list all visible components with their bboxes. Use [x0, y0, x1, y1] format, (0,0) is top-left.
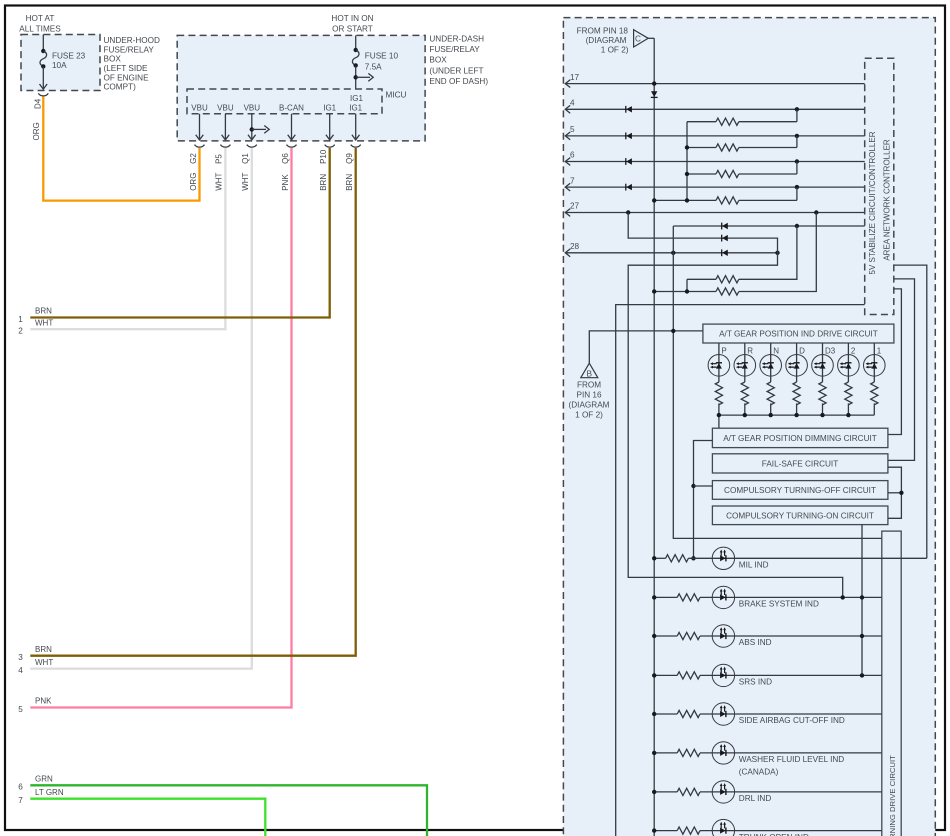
junction bus row MIL IND — [652, 556, 656, 560]
resistor gear D3 — [819, 382, 826, 405]
svg-text:HOT AT: HOT AT — [26, 14, 55, 23]
svg-text:C: C — [635, 34, 641, 44]
wire long feed from 5V box — [616, 305, 865, 836]
svg-text:END OF DASH): END OF DASH) — [429, 77, 488, 86]
wire MICU pin down arrow — [199, 114, 201, 139]
svg-text:FUSE/RELAY: FUSE/RELAY — [429, 45, 480, 54]
junction pin 27 left branch — [626, 210, 630, 214]
svg-text:4: 4 — [18, 666, 23, 675]
junction pin 28 / row B — [775, 251, 779, 255]
junction pin 5 riser — [795, 134, 799, 138]
resistor gear D — [793, 382, 800, 405]
buffer triangle C — [634, 30, 649, 47]
svg-text:FUSE/RELAY: FUSE/RELAY — [104, 45, 155, 54]
svg-text:N: N — [773, 346, 779, 355]
wire riser to pin row — [796, 109, 798, 121]
pin 6 row wire — [565, 161, 865, 163]
svg-text:PNK: PNK — [35, 697, 52, 706]
wire GRN pin6 — [30, 785, 427, 836]
svg-text:5V STABILIZE CIRCUIT/CONTROLLE: 5V STABILIZE CIRCUIT/CONTROLLER — [868, 131, 877, 274]
wire ORG from fuse 23 to G2 — [43, 97, 199, 201]
svg-text:WHT: WHT — [35, 318, 53, 327]
svg-text:SRS IND: SRS IND — [739, 678, 772, 687]
wire branch arrow right — [356, 76, 370, 78]
svg-text:A/T GEAR POSITION DIMMING CIRC: A/T GEAR POSITION DIMMING CIRCUIT — [723, 434, 877, 443]
diode pin 4 — [626, 106, 632, 113]
junction pin 6 riser — [795, 159, 799, 163]
svg-text:BRN: BRN — [319, 174, 328, 191]
indicator row SRS IND — [654, 674, 677, 676]
junction OFF box feed — [691, 484, 695, 488]
svg-text:UNDER-HOOD: UNDER-HOOD — [104, 36, 160, 45]
svg-text:ABS IND: ABS IND — [739, 638, 772, 647]
LED SIDE AIRBAG CUT-OFF IND — [712, 703, 734, 725]
indicator row TRUNK OPEN IND — [654, 830, 677, 832]
wire MICU pin down arrow — [251, 114, 253, 139]
junction pin 27 resistor riser — [814, 210, 818, 214]
svg-text:R: R — [747, 346, 753, 355]
gear indicator LED R — [744, 343, 746, 415]
wire Q1 branch arrow right — [252, 128, 266, 130]
resistor gear N — [767, 382, 774, 405]
wire fuse 23 feed — [42, 35, 44, 52]
svg-text:FROM: FROM — [577, 380, 601, 389]
junction SRS row ON chain — [860, 673, 864, 677]
svg-text:WHT: WHT — [215, 172, 224, 190]
svg-text:FUSE 10: FUSE 10 — [365, 52, 399, 61]
svg-text:A/T GEAR POSITION IND DRIVE CI: A/T GEAR POSITION IND DRIVE CIRCUIT — [719, 330, 878, 339]
svg-text:OR START: OR START — [332, 24, 373, 33]
wire 5V box stub 1 to MIL — [894, 265, 927, 558]
LED MIL IND — [712, 547, 734, 569]
pin 4 row wire — [565, 108, 865, 110]
junction BRAKE row B feed — [841, 595, 845, 599]
wire riser to pin row — [796, 187, 798, 200]
diode pin 5 — [626, 133, 632, 140]
gear indicator LED D3 — [822, 343, 824, 415]
LED DRL IND — [712, 781, 734, 803]
svg-text:3: 3 — [18, 653, 23, 662]
diode pin 7 — [626, 184, 632, 191]
svg-text:PNK: PNK — [281, 174, 290, 191]
svg-text:MIL IND: MIL IND — [739, 561, 769, 570]
warning drive circuit box — [882, 531, 901, 836]
svg-text:G2: G2 — [189, 153, 198, 164]
svg-text:28: 28 — [570, 242, 580, 251]
svg-text:10A: 10A — [52, 61, 67, 70]
svg-text:(CANADA): (CANADA) — [739, 767, 779, 776]
svg-text:6: 6 — [18, 783, 23, 792]
indicator row DRL IND — [654, 791, 677, 793]
wire B to drive circuit — [589, 331, 703, 363]
A/T gear position dimming circuit box — [712, 428, 888, 447]
resistor ladder row 1 — [687, 121, 716, 123]
svg-text:WASHER FLUID LEVEL IND: WASHER FLUID LEVEL IND — [739, 755, 844, 764]
junction gear bus D3 — [820, 413, 824, 417]
wire riser to pin row — [796, 162, 798, 175]
svg-text:D: D — [799, 346, 805, 355]
svg-text:1 OF 2): 1 OF 2) — [601, 45, 629, 54]
svg-text:AREA NETWORK CONTROLLER: AREA NETWORK CONTROLLER — [883, 139, 892, 261]
svg-text:COMPT): COMPT) — [104, 83, 137, 92]
diode row A wire — [673, 225, 864, 227]
junction bus row BRAKE SYSTEM IND — [652, 595, 656, 599]
wire LT GRN pin7 — [30, 799, 265, 836]
svg-text:27: 27 — [570, 202, 580, 211]
A/T gear position ind drive circuit box — [703, 324, 894, 343]
wire fuse 10 feed — [355, 35, 357, 50]
svg-text:IG1: IG1 — [349, 104, 362, 113]
junction bus row DRL IND — [652, 790, 656, 794]
svg-text:HOT IN ON: HOT IN ON — [331, 14, 373, 23]
resistor ladder row 2 — [687, 147, 716, 149]
wire 5V box stub 3 to dimming — [888, 289, 902, 435]
junction vertical B / MIL row — [691, 556, 695, 560]
svg-text:FROM PIN 18: FROM PIN 18 — [577, 27, 629, 36]
svg-text:D3: D3 — [825, 346, 836, 355]
svg-text:P5: P5 — [215, 154, 224, 164]
5V stabilize / CAN controller dashed box — [865, 58, 894, 314]
diode row B wire — [628, 213, 843, 598]
wire fail-safe to OFF/ON chain — [888, 467, 902, 518]
svg-text:FAIL-SAFE CIRCUIT: FAIL-SAFE CIRCUIT — [762, 459, 838, 468]
svg-text:LT GRN: LT GRN — [35, 788, 64, 797]
indicator row WASHER FLUID LEVEL IND — [654, 752, 677, 754]
svg-text:IG1: IG1 — [323, 104, 336, 113]
svg-text:ALL TIMES: ALL TIMES — [19, 24, 61, 33]
svg-text:1: 1 — [18, 315, 23, 324]
junction pin 17 / bus — [652, 81, 656, 85]
fail-safe circuit box — [712, 454, 888, 473]
svg-text:P: P — [721, 346, 726, 355]
junction bus row TRUNK OPEN IND — [652, 828, 656, 832]
svg-text:5: 5 — [570, 125, 575, 134]
junction gear bus R — [743, 413, 747, 417]
junction BRAKE row ON chain — [860, 595, 864, 599]
svg-text:BRN: BRN — [345, 174, 354, 191]
svg-text:7.5A: 7.5A — [365, 63, 382, 72]
wire MICU pin down arrow — [224, 114, 226, 139]
svg-text:1 OF 2): 1 OF 2) — [575, 411, 603, 420]
gear indicator LED D — [796, 343, 798, 415]
junction pin 28 / vertical A — [671, 251, 675, 255]
LED SRS IND — [712, 664, 734, 686]
svg-text:7: 7 — [18, 796, 23, 805]
junction ABS row ON chain — [860, 634, 864, 638]
svg-text:FUSE 23: FUSE 23 — [52, 52, 86, 61]
wire BRN pin3 to Q9 — [30, 148, 355, 656]
svg-text:UNDER-DASH: UNDER-DASH — [429, 34, 484, 43]
indicator row ABS IND — [654, 635, 677, 637]
vertical A wire — [673, 226, 882, 538]
resistor gear 2 — [845, 382, 852, 405]
LED TRUNK OPEN IND — [712, 819, 734, 836]
gear indicator LED N — [770, 343, 772, 415]
pin 27 row wire — [565, 212, 865, 214]
fuse F23 — [40, 49, 47, 69]
svg-text:ORG: ORG — [32, 122, 41, 140]
svg-text:(UNDER LEFT: (UNDER LEFT — [429, 66, 483, 75]
resistor gear 1 — [871, 382, 878, 405]
pin 7 row wire — [565, 186, 865, 188]
under-hood fuse/relay box — [21, 35, 100, 91]
svg-text:B: B — [587, 368, 593, 378]
gear indicator LED 1 — [873, 343, 875, 415]
pin 5 row wire — [565, 135, 865, 137]
svg-text:COMPULSORY TURNING-OFF CIRCUIT: COMPULSORY TURNING-OFF CIRCUIT — [724, 486, 876, 495]
LED BRAKE SYSTEM IND — [712, 586, 734, 608]
wire BRN pin1 to P10 — [30, 148, 329, 318]
wire central bus vertical — [653, 38, 655, 836]
compulsory turning-off circuit box — [712, 481, 888, 500]
fuse F10 — [352, 48, 359, 68]
wire WHT pin4 to Q1 — [30, 148, 252, 669]
wire MICU pin down arrow — [291, 114, 293, 139]
indicator row MIL IND — [654, 557, 665, 559]
svg-text:D4: D4 — [33, 98, 42, 109]
svg-text:Q9: Q9 — [345, 153, 354, 164]
wire riser to pin row — [796, 136, 798, 148]
resistor ladder row 3 — [687, 173, 716, 175]
svg-text:MICU: MICU — [386, 91, 407, 100]
junction gear bus 2 — [846, 413, 850, 417]
compulsory turning-on circuit box — [712, 506, 888, 525]
svg-text:P10: P10 — [319, 149, 328, 164]
svg-text:4: 4 — [570, 99, 575, 108]
svg-text:WHT: WHT — [241, 172, 250, 190]
under-dash fuse/relay box — [177, 35, 425, 140]
LED WASHER FLUID LEVEL IND — [712, 742, 734, 764]
svg-text:7: 7 — [570, 176, 575, 185]
junction pin 7 riser — [795, 185, 799, 189]
svg-text:GRN: GRN — [35, 775, 53, 784]
resistor ladder row 4 — [654, 199, 716, 201]
svg-text:2: 2 — [851, 346, 856, 355]
svg-text:Q6: Q6 — [281, 153, 290, 164]
svg-text:OF ENGINE: OF ENGINE — [104, 73, 150, 82]
svg-text:BOX: BOX — [104, 55, 122, 64]
connector D4 — [38, 93, 48, 96]
connector P10 — [325, 145, 335, 148]
junction bus row WASHER FLUID LEVEL IND — [652, 751, 656, 755]
svg-text:ORG: ORG — [189, 173, 198, 191]
wire gear common bus — [719, 415, 874, 428]
svg-text:BRAKE SYSTEM IND: BRAKE SYSTEM IND — [739, 600, 819, 609]
junction pin 4 riser — [795, 107, 799, 111]
wire PNK pin5 to Q6 — [30, 148, 291, 708]
diode pin 28 — [722, 249, 728, 256]
svg-text:Q1: Q1 — [241, 153, 250, 164]
wire pair left link — [686, 279, 688, 291]
junction ladder — [685, 145, 689, 149]
svg-text:(DIAGRAM: (DIAGRAM — [586, 36, 627, 45]
svg-text:IG1: IG1 — [350, 94, 363, 103]
svg-text:BRN: BRN — [35, 645, 52, 654]
buffer triangle B — [581, 363, 598, 378]
wire 5V box stub 2 to fail-safe — [888, 279, 915, 461]
junction bus row ABS IND — [652, 634, 656, 638]
wire OFF box right — [888, 492, 902, 494]
wire fuse 23 output with arrow — [42, 66, 44, 88]
indicator row SIDE AIRBAG CUT-OFF IND — [654, 713, 677, 715]
gauge control module dashed box — [563, 18, 935, 836]
svg-text:DRL IND: DRL IND — [739, 794, 772, 803]
svg-text:17: 17 — [570, 73, 580, 82]
junction Q1 branch — [250, 127, 254, 131]
wire from C buffer — [648, 37, 654, 39]
junction ladder / central bus — [652, 198, 656, 202]
svg-text:PIN 16: PIN 16 — [576, 390, 601, 399]
svg-text:SIDE AIRBAG CUT-OFF IND: SIDE AIRBAG CUT-OFF IND — [739, 716, 845, 725]
diode D below pin 17 junction — [651, 91, 658, 97]
resistor pair row 2 — [654, 291, 716, 293]
resistor gear R — [741, 382, 748, 405]
wire WHT pin2 to P5 — [30, 148, 225, 329]
svg-text:5: 5 — [18, 705, 23, 714]
svg-text:COMPULSORY TURNING-ON CIRCUIT: COMPULSORY TURNING-ON CIRCUIT — [726, 511, 874, 520]
svg-text:BRN: BRN — [35, 307, 52, 316]
connector P5 — [220, 145, 230, 148]
junction gear bus P — [717, 413, 721, 417]
LED ABS IND — [712, 625, 734, 647]
wire OFF box left feed — [694, 485, 713, 487]
junction fuse 10 output — [354, 75, 358, 79]
svg-text:B-CAN: B-CAN — [279, 104, 304, 113]
connector Q6 — [287, 145, 297, 148]
svg-text:2: 2 — [18, 327, 23, 336]
svg-text:6: 6 — [570, 151, 575, 160]
svg-text:(LEFT SIDE: (LEFT SIDE — [104, 64, 149, 73]
pin 28 row wire — [565, 252, 778, 254]
junction gear bus D — [794, 413, 798, 417]
wire dimming left to MIL junction — [694, 441, 713, 559]
gear indicator LED 2 — [847, 343, 849, 415]
junction bus row SIDE AIRBAG CUT-OFF IND — [652, 712, 656, 716]
connector Q9 — [351, 145, 361, 148]
wire fuse 10 to MICU — [355, 65, 357, 89]
wire ladder left bus — [686, 122, 688, 201]
wire ON box bottom to indicator rows — [861, 525, 863, 676]
svg-text:WARNING DRIVE CIRCUIT: WARNING DRIVE CIRCUIT — [888, 755, 897, 836]
MICU box — [187, 89, 382, 114]
svg-text:VBU: VBU — [217, 104, 234, 113]
connector G2 — [195, 145, 205, 148]
svg-text:VBU: VBU — [244, 104, 261, 113]
resistor gear P — [715, 382, 722, 405]
svg-text:BOX: BOX — [429, 56, 447, 65]
svg-text:(DIAGRAM: (DIAGRAM — [569, 401, 610, 410]
indicator row BRAKE SYSTEM IND — [654, 596, 677, 598]
wire MICU pin down arrow — [329, 114, 331, 139]
wire MICU pin down arrow — [355, 114, 357, 139]
resistor pair row 1 — [687, 278, 716, 280]
diode pin 6 — [626, 158, 632, 165]
junction gear bus N — [769, 413, 773, 417]
gear indicator LED P — [718, 343, 720, 415]
junction B feed / vertical A — [671, 329, 675, 333]
connector Q1 — [247, 145, 257, 148]
junction bus row SRS IND — [652, 673, 656, 677]
svg-text:VBU: VBU — [191, 104, 208, 113]
pin 17 row wire — [565, 83, 865, 85]
svg-text:WHT: WHT — [35, 658, 53, 667]
svg-text:1: 1 — [877, 346, 882, 355]
